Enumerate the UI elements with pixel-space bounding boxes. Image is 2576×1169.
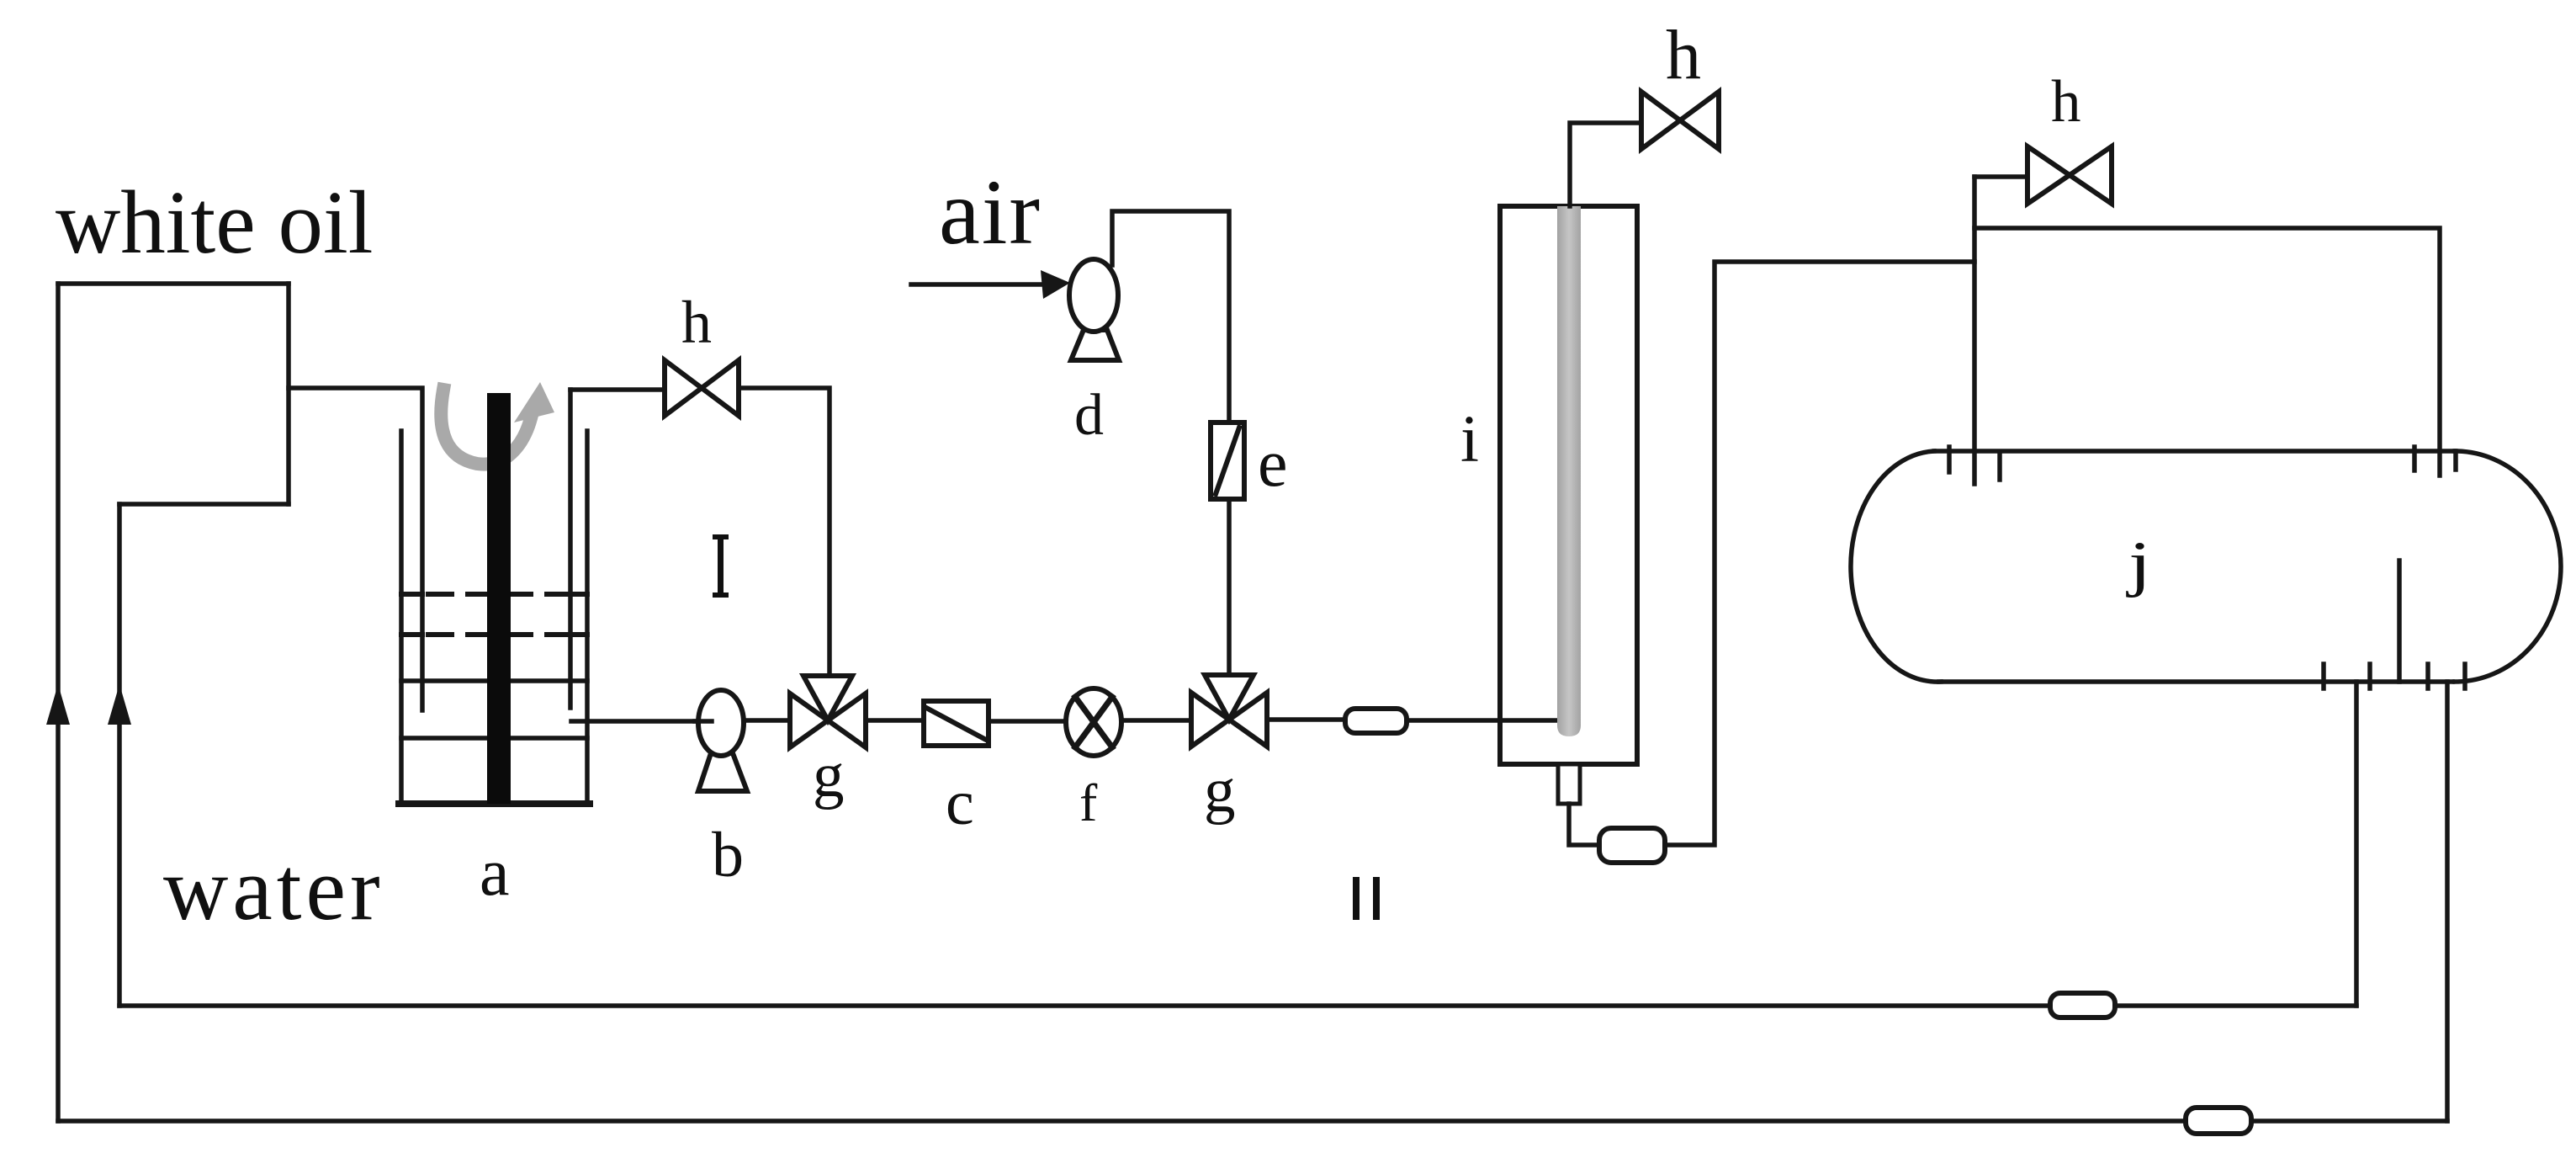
wire pump d to flowmeter e [1112, 211, 1229, 422]
flange ticks top-left nozzle [1947, 447, 1952, 472]
wire column vent [1570, 123, 1641, 206]
wire pill1 to column tube [1407, 718, 1570, 723]
wire tank outlet to pump b [571, 719, 712, 724]
wire vessel bottom-right return [2445, 682, 2450, 1121]
wire vessel inlet vertical [1972, 177, 1977, 484]
pump b pedestal [698, 753, 747, 791]
wire vapor loop top [1974, 228, 2440, 476]
arrow water left up [46, 684, 70, 725]
svg-text:c: c [946, 768, 974, 838]
svg-text:air: air [939, 161, 1042, 263]
wire vent stub to valve h3 [1974, 174, 2027, 179]
arrow water right up [108, 684, 131, 725]
wire white-oil box top [58, 281, 289, 286]
flange ticks top-right nozzle [2412, 447, 2417, 470]
valve h1 [665, 360, 739, 416]
wire white-oil box bottom [119, 502, 289, 507]
tank a outer-right wall [585, 431, 590, 804]
svg-text:g: g [813, 741, 845, 810]
vessel j shell bottom [1939, 679, 2452, 684]
svg-text:j: j [2125, 529, 2151, 598]
wire water outer-left vertical [56, 284, 61, 1121]
wire g1 to filter c [866, 718, 924, 723]
svg-text:b: b [712, 820, 744, 890]
valve g2 (3-way) [1191, 675, 1267, 747]
svg-text:h: h [2051, 69, 2081, 135]
pump b [698, 690, 744, 756]
svg-text:water: water [163, 840, 384, 939]
flange ticks bottom-left nozzle [2321, 664, 2326, 688]
column bottom nozzle [1558, 764, 1580, 804]
svg-text:d: d [1074, 383, 1104, 448]
wire e to g2 [1227, 499, 1232, 675]
svg-text:h: h [681, 289, 712, 356]
tank a level line 1 [401, 592, 587, 597]
wire water inner-left vertical [117, 504, 122, 1006]
wire pump b inlet stub [695, 719, 712, 724]
wire h1 to g1 [739, 388, 830, 676]
flange ticks bottom-right nozzle [2425, 664, 2430, 688]
tank a level line 2 [401, 632, 587, 637]
column i [1500, 206, 1637, 764]
wire vessel bottom-left return [2354, 682, 2359, 1006]
stirrer swirl arrow [441, 390, 531, 465]
svg-text:e: e [1258, 427, 1288, 501]
svg-text:h: h [1666, 16, 1701, 94]
air inlet arrow [911, 282, 1043, 287]
vessel j shell top [1934, 449, 2455, 454]
wire white-oil box right [286, 284, 291, 504]
stirrer shaft [487, 393, 511, 804]
tank a bottom [399, 800, 590, 807]
wire bottom inner return [119, 1003, 2356, 1008]
svg-text:g: g [1204, 756, 1236, 826]
fitting pill 1 [1345, 709, 1407, 733]
vessel j left head [1851, 451, 1941, 682]
label I [713, 534, 729, 598]
filter c [924, 701, 989, 746]
valve f [1066, 688, 1121, 756]
pump d pedestal [1071, 330, 1119, 360]
svg-text:i: i [1460, 403, 1479, 476]
wire g2 to column i [1267, 717, 1345, 722]
wire f to g2 [1121, 718, 1191, 723]
tank a inner-right wall [568, 390, 573, 708]
svg-text:f: f [1079, 773, 1098, 832]
fitting pill 3 [2050, 993, 2115, 1018]
valve g1 (3-way) [790, 676, 866, 747]
fitting pill 4 [2186, 1108, 2251, 1134]
wire pump b to valve g1 [744, 718, 790, 723]
svg-text:a: a [480, 836, 510, 910]
valve h3 [2027, 146, 2112, 204]
valve h2 [1641, 92, 1719, 149]
wire c to valve f [989, 719, 1066, 724]
flowmeter e [1211, 422, 1244, 499]
tank a outer-left wall [399, 431, 404, 804]
vessel dip tube [2397, 561, 2402, 682]
wire oil outlet to tank [289, 388, 422, 710]
wire pill2 up to vessel feed [1665, 262, 1974, 845]
wire tank to valve h1 [570, 387, 665, 392]
tank a inner line 1 [401, 678, 587, 683]
vessel j right head [2455, 451, 2561, 682]
pump d [1069, 259, 1118, 332]
wire column bottom to pill2 [1569, 804, 1599, 845]
wire bottom outer return [58, 1119, 2447, 1124]
tank a inner line 2 [401, 736, 587, 741]
svg-text:white oil: white oil [56, 173, 373, 273]
label II [1353, 877, 1380, 920]
fitting pill 2 [1599, 828, 1665, 863]
